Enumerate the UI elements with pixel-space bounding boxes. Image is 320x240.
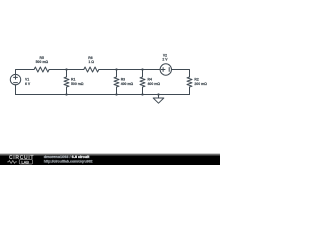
node C junction dot top of R4	[141, 68, 143, 70]
wire node C to V2	[143, 69, 161, 71]
svg-text:6 V: 6 V	[25, 82, 31, 86]
resistor R5 500 mOhm	[34, 67, 49, 72]
svg-text:500 mΩ: 500 mΩ	[36, 60, 49, 64]
V2 minus sign (rotated)	[168, 68, 170, 72]
svg-text:2 V: 2 V	[162, 57, 168, 61]
voltage source V2 2V circle	[160, 64, 171, 75]
V1 plus sign	[14, 76, 18, 80]
junction dot bottom of R4	[141, 93, 143, 95]
resistor R2 200 mOhm	[187, 77, 192, 87]
node A junction dot top of R1	[65, 68, 67, 70]
resistor R3 400 mOhm	[114, 70, 119, 95]
resistor R4 400 mOhm	[140, 70, 145, 95]
CircuitLab logo resistor zigzag	[7, 161, 17, 164]
voltage source V1 6V circle	[10, 74, 20, 84]
wire V2 to top-right corner	[172, 70, 190, 78]
junction dot bottom of R1	[65, 93, 67, 95]
svg-text:LAB: LAB	[21, 160, 29, 164]
wire node A to R6	[67, 69, 84, 71]
svg-text:200 mΩ: 200 mΩ	[194, 82, 207, 86]
svg-text:500 mΩ: 500 mΩ	[71, 82, 84, 86]
V1 minus sign	[14, 82, 18, 84]
wire V1 bottom to rail	[15, 85, 17, 95]
wire R5 to node A	[49, 69, 66, 71]
junction dot bottom of R3	[115, 93, 117, 95]
wire R2 bottom lead	[189, 87, 191, 95]
wire top-left from V1 to R5	[16, 70, 35, 75]
resistor R6 1 Ohm	[84, 67, 99, 72]
V2 plus sign	[161, 68, 165, 72]
svg-text:400 mΩ: 400 mΩ	[121, 82, 134, 86]
CircuitLab logo LAB box	[19, 160, 32, 164]
resistor R1 500 mOhm	[64, 70, 69, 95]
wire R6 to node B	[99, 69, 116, 71]
node B junction dot top of R3	[115, 68, 117, 70]
ground symbol	[153, 95, 164, 104]
wire bottom rail	[16, 94, 190, 96]
wire node B to node C	[117, 69, 143, 71]
svg-text:http://circuitlab.com/c/qru982: http://circuitlab.com/c/qru982	[44, 159, 93, 163]
svg-text:400 mΩ: 400 mΩ	[148, 82, 161, 86]
junction dot at ground	[157, 93, 159, 95]
svg-text:1 Ω: 1 Ω	[88, 60, 94, 64]
